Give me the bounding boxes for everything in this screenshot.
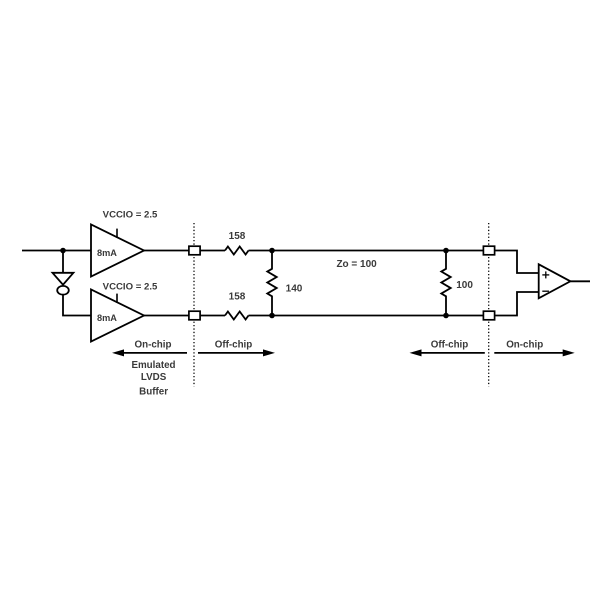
- node input junction: [60, 248, 66, 254]
- svg-text:100: 100: [456, 280, 473, 291]
- buffer U1 top 8mA: [91, 225, 144, 277]
- wire junction to inverter: [62, 251, 64, 273]
- pad left bottom: [189, 311, 200, 320]
- wire receiver minus input: [495, 292, 539, 316]
- arrow on-chip left: [112, 349, 187, 356]
- pin VCCIO top buffer: [116, 229, 118, 238]
- arrow on-chip right: [494, 349, 574, 356]
- svg-text:Off-chip: Off-chip: [215, 339, 253, 350]
- wire input from left: [22, 250, 91, 252]
- resistor R3 140 shunt: [267, 251, 276, 316]
- arrow off-chip left: [198, 349, 275, 356]
- svg-text:Off-chip: Off-chip: [431, 339, 469, 350]
- svg-text:LVDS: LVDS: [141, 372, 167, 383]
- node bottom junction R3: [269, 313, 275, 319]
- buffer U2 bottom 8mA: [91, 290, 144, 342]
- svg-text:140: 140: [286, 284, 303, 295]
- wire bottom rail transmission line: [249, 315, 484, 317]
- wire bottom rail left: [144, 315, 225, 317]
- svg-text:Buffer: Buffer: [139, 387, 168, 398]
- svg-text:158: 158: [229, 292, 246, 303]
- arrow off-chip right: [410, 349, 485, 356]
- resistor R2 158 bottom series: [225, 312, 248, 320]
- resistor R1 158 top series: [225, 247, 248, 255]
- pad right top: [483, 246, 494, 255]
- svg-text:On-chip: On-chip: [506, 339, 543, 350]
- wire inverter to bottom buffer input: [63, 295, 91, 316]
- svg-text:VCCIO = 2.5: VCCIO = 2.5: [103, 209, 158, 220]
- pad right bottom: [483, 311, 494, 320]
- wire receiver plus input: [495, 251, 539, 274]
- minus sign: [542, 290, 549, 292]
- svg-text:On-chip: On-chip: [134, 339, 171, 350]
- svg-text:Emulated: Emulated: [131, 360, 175, 371]
- node bottom junction R4: [443, 313, 449, 319]
- node top junction R4: [443, 248, 449, 254]
- inverter (bubble) feeding bottom buffer: [53, 273, 74, 295]
- wire top rail left: [144, 250, 225, 252]
- wire top rail transmission line: [249, 250, 484, 252]
- svg-text:158: 158: [229, 231, 246, 242]
- svg-text:Zo = 100: Zo = 100: [336, 259, 377, 270]
- svg-text:8mA: 8mA: [97, 248, 117, 258]
- pin VCCIO bottom buffer: [116, 294, 118, 303]
- plus sign: [542, 271, 549, 278]
- dotted boundary left: [193, 223, 195, 387]
- op-amp receiver: [539, 264, 571, 298]
- dotted boundary right: [488, 223, 490, 387]
- svg-text:VCCIO = 2.5: VCCIO = 2.5: [103, 281, 158, 292]
- svg-text:8mA: 8mA: [97, 313, 117, 323]
- pad left top: [189, 246, 200, 255]
- resistor R4 100 termination: [441, 251, 450, 316]
- wire receiver output: [570, 280, 590, 282]
- node top junction R3: [269, 248, 275, 254]
